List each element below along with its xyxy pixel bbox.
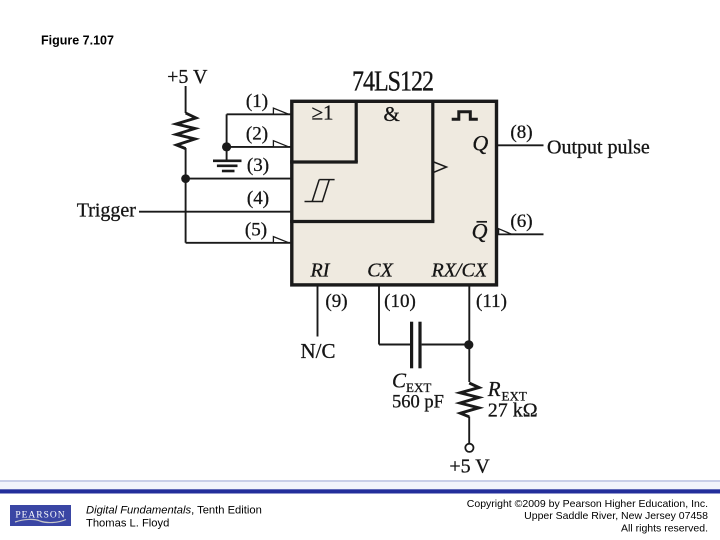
svg-text:R: R <box>487 377 501 401</box>
svg-text:Trigger: Trigger <box>77 200 137 222</box>
svg-text:Q: Q <box>472 219 488 244</box>
svg-text:Q: Q <box>472 131 488 156</box>
svg-text:C: C <box>392 369 407 393</box>
svg-text:(11): (11) <box>476 291 507 312</box>
svg-text:(3): (3) <box>247 155 269 176</box>
svg-text:Copyright ©2009 by Pearson Hig: Copyright ©2009 by Pearson Higher Educat… <box>467 498 708 510</box>
svg-text:N/C: N/C <box>301 339 336 363</box>
svg-text:(5): (5) <box>245 219 267 240</box>
svg-text:+5 V: +5 V <box>167 66 208 88</box>
svg-text:Thomas L. Floyd: Thomas L. Floyd <box>86 518 169 530</box>
svg-text:All rights reserved.: All rights reserved. <box>621 523 708 535</box>
svg-text:(10): (10) <box>384 291 416 312</box>
svg-text:CX: CX <box>367 259 393 281</box>
svg-text:(4): (4) <box>247 188 269 209</box>
svg-text:Figure 7.107: Figure 7.107 <box>41 34 114 48</box>
svg-text:RX/CX: RX/CX <box>431 259 488 281</box>
svg-text:560 pF: 560 pF <box>392 393 444 413</box>
svg-text:(1): (1) <box>246 91 268 112</box>
svg-text:&: & <box>384 102 400 126</box>
svg-text:74LS122: 74LS122 <box>352 64 433 97</box>
svg-text:+5 V: +5 V <box>449 456 490 478</box>
svg-text:(8): (8) <box>510 122 532 143</box>
svg-text:(6): (6) <box>510 211 532 232</box>
svg-text:(2): (2) <box>246 123 268 144</box>
svg-text:PEARSON: PEARSON <box>15 511 65 521</box>
svg-text:Output pulse: Output pulse <box>547 137 650 159</box>
svg-text:Digital Fundamentals, Tenth Ed: Digital Fundamentals, Tenth Edition <box>86 505 262 517</box>
svg-text:≥1: ≥1 <box>311 101 333 125</box>
svg-text:(9): (9) <box>325 291 347 312</box>
svg-text:Upper Saddle River, New Jersey: Upper Saddle River, New Jersey 07458 <box>524 510 708 522</box>
svg-text:RI: RI <box>310 259 331 281</box>
svg-text:27 kΩ: 27 kΩ <box>488 400 538 422</box>
